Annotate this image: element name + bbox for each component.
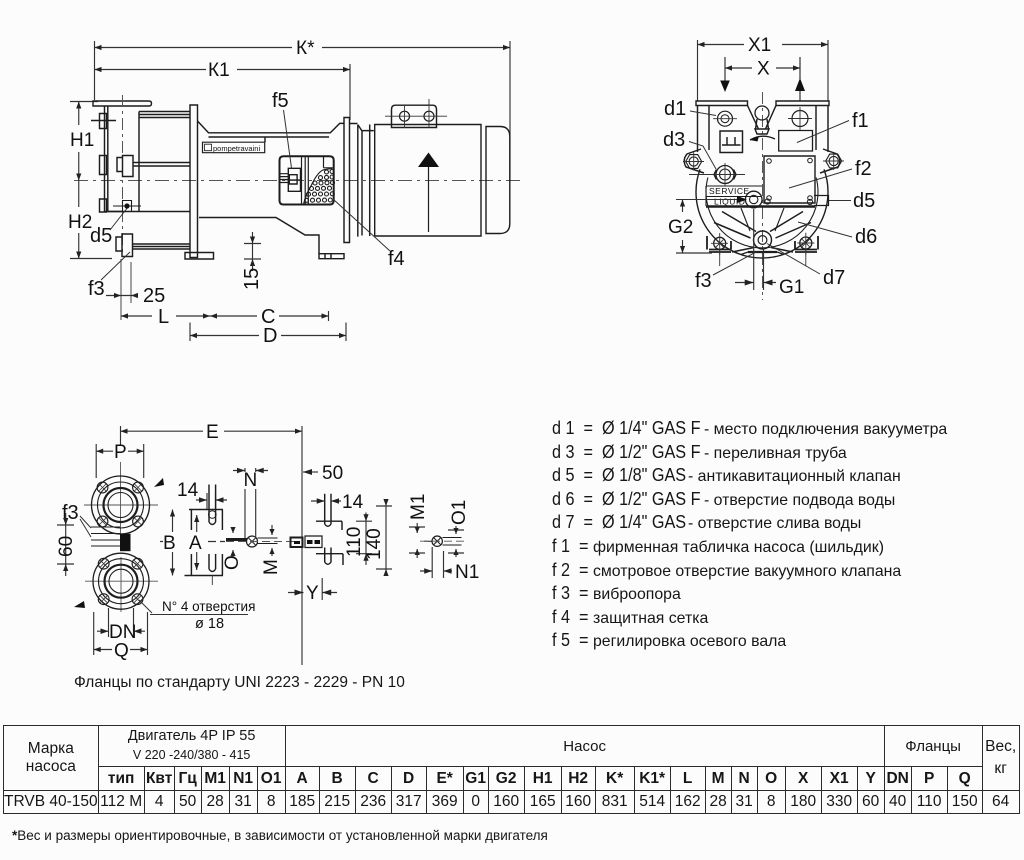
plate bottom edge <box>706 205 815 207</box>
svg-text:f5: f5 <box>272 90 289 112</box>
svg-text:110: 110 <box>344 527 365 557</box>
svg-text:E: E <box>206 422 219 443</box>
motor rib lines <box>480 130 482 230</box>
right port flange <box>776 101 829 106</box>
svg-text:f3: f3 <box>88 278 105 300</box>
motor adapter <box>369 125 371 237</box>
svg-text:Y: Y <box>306 583 319 604</box>
svg-text:N1: N1 <box>455 562 479 583</box>
svg-text:К*: К* <box>296 38 315 59</box>
motor body <box>375 125 481 237</box>
dimension Q <box>94 612 148 655</box>
legend list <box>552 417 1022 653</box>
svg-text:N: N <box>244 470 258 491</box>
left foot <box>707 236 731 252</box>
svg-text:f4: f4 <box>388 248 405 270</box>
motor end cap <box>486 127 510 234</box>
upper port stub <box>189 510 223 531</box>
vertical centerline front view <box>762 92 764 300</box>
keyway lower <box>316 548 343 566</box>
dimension M <box>269 525 274 556</box>
d5 valve <box>113 201 141 212</box>
bracket top profile <box>198 121 345 142</box>
svg-text:d5: d5 <box>853 190 875 212</box>
dimension X <box>725 65 800 70</box>
suction flange <box>92 476 150 534</box>
right port pipe <box>816 106 828 153</box>
dimension C <box>210 311 329 321</box>
protective mesh dots <box>304 168 335 204</box>
svg-text:X: X <box>757 59 770 80</box>
lower port stub <box>185 554 224 576</box>
direction mark top <box>154 478 164 487</box>
svg-text:ø 18: ø 18 <box>195 616 224 632</box>
svg-text:H1: H1 <box>70 130 94 151</box>
dimension M1 <box>409 523 425 558</box>
svg-text:d1: d1 <box>664 98 686 120</box>
centerline pump axis <box>74 180 522 182</box>
dimension H1 <box>70 102 98 181</box>
svg-text:Q: Q <box>114 641 129 662</box>
label f3 bottom <box>80 516 91 537</box>
d7 drain <box>754 231 772 249</box>
dimension 15 <box>244 232 261 271</box>
dimension K1 <box>95 64 351 120</box>
svg-text:14: 14 <box>342 492 364 513</box>
svg-text:M: M <box>261 559 282 575</box>
svg-text:O1: O1 <box>449 500 470 525</box>
web spokes <box>714 212 811 239</box>
bearing block <box>280 156 334 204</box>
svg-text:L: L <box>158 306 169 328</box>
label f2 <box>789 169 852 188</box>
d1 port <box>718 111 733 126</box>
dimension table <box>3 725 1020 814</box>
d3 port <box>716 166 734 184</box>
svg-text:X1: X1 <box>748 35 771 56</box>
dimension 140 <box>376 499 392 576</box>
dimension N <box>233 468 268 538</box>
dimension O <box>230 527 235 557</box>
inlet flange plate <box>93 101 152 106</box>
right lug <box>820 149 840 173</box>
svg-text:pompetravaini: pompetravaini <box>213 144 260 153</box>
vibration mount block <box>120 534 131 552</box>
svg-text:14: 14 <box>177 480 199 501</box>
dimension K* <box>95 41 511 180</box>
dimension 14 upper <box>196 493 227 510</box>
svg-text:M1: M1 <box>408 494 429 520</box>
vibration mount pads <box>91 527 120 546</box>
inspection plate f2 <box>764 156 815 203</box>
holes note leader <box>139 600 248 615</box>
svg-text:G2: G2 <box>668 217 693 238</box>
motor flow arrow <box>418 153 439 168</box>
flange stud bottom <box>100 199 107 212</box>
label f1 <box>797 121 849 143</box>
svg-text:f1: f1 <box>852 110 869 132</box>
dimension H2 <box>70 181 112 259</box>
svg-text:A: A <box>189 533 202 554</box>
dimension 60 <box>57 513 74 576</box>
dimension DN <box>97 608 145 637</box>
svg-text:N° 4 отверстия: N° 4 отверстия <box>162 599 255 614</box>
right gauge port <box>792 111 808 127</box>
dimension O1 <box>448 526 464 557</box>
svg-text:50: 50 <box>322 463 343 484</box>
dimension X1 <box>698 40 829 101</box>
outlet arrow up <box>799 57 801 101</box>
dimension D <box>190 323 346 342</box>
bracket bottom profile <box>199 218 319 254</box>
leader d5 <box>110 207 128 230</box>
svg-text:d3: d3 <box>663 129 685 151</box>
lifting eye <box>755 106 769 120</box>
service liquid box <box>706 186 762 206</box>
label d1 <box>690 111 716 116</box>
flange standard note <box>74 674 405 692</box>
discharge flange <box>93 553 149 609</box>
discharge flange bolt holes <box>98 558 109 569</box>
left lug <box>684 149 704 173</box>
bracket foot right <box>319 254 344 259</box>
svg-text:H2: H2 <box>68 212 92 233</box>
casing body <box>108 112 190 212</box>
dimension E <box>121 426 303 665</box>
leader f4 <box>333 199 390 251</box>
dimension G1 <box>735 209 776 290</box>
svg-text:f2: f2 <box>855 158 872 180</box>
label f3 front <box>713 252 757 276</box>
nameplate pompetravaini <box>203 142 265 153</box>
svg-text:d5: d5 <box>90 225 112 247</box>
svg-text:25: 25 <box>143 285 165 307</box>
leader f3 side <box>101 252 130 280</box>
inlet arrow down <box>724 57 726 81</box>
svg-text:D: D <box>263 325 277 347</box>
svg-text:SERVICE: SERVICE <box>709 186 750 196</box>
flange stud top <box>91 114 116 129</box>
right foot <box>795 236 818 252</box>
svg-text:К1: К1 <box>208 60 230 81</box>
svg-text:140: 140 <box>364 528 385 560</box>
d5 valve boss <box>814 196 829 206</box>
dimension 50 <box>303 469 318 475</box>
label d3 <box>689 142 716 170</box>
svg-text:O: O <box>222 555 243 570</box>
motor shaft blocks <box>291 538 303 548</box>
dimension P <box>96 444 144 478</box>
backplate foot pad <box>185 253 214 260</box>
tie bolt upper <box>117 156 190 177</box>
flange centerlines <box>84 462 158 612</box>
pump shaft end <box>226 538 247 541</box>
dims B and A <box>160 510 225 576</box>
inlet flange body <box>105 106 123 212</box>
suction flange bolt holes <box>97 482 108 493</box>
axial adjust screw f5 <box>288 168 300 191</box>
dimension 25 <box>106 293 138 298</box>
rotation arrow <box>750 136 775 140</box>
casing rim <box>696 169 828 258</box>
funnel <box>748 106 777 135</box>
dimension G2 <box>676 200 712 254</box>
svg-text:d7: d7 <box>823 267 845 289</box>
motor flange <box>344 118 374 243</box>
dimension N1 <box>420 547 452 578</box>
label d7 <box>767 244 820 275</box>
dimension 14 keyway <box>311 498 341 504</box>
svg-text:60: 60 <box>56 536 77 557</box>
casing backplate <box>190 105 198 258</box>
direction mark bottom <box>74 601 85 608</box>
svg-text:f3: f3 <box>695 270 712 292</box>
tie bolt lower <box>116 234 190 257</box>
label d5 front <box>829 200 851 202</box>
dimension 110 <box>356 513 372 566</box>
label d6 <box>798 222 852 237</box>
footnote <box>12 828 548 843</box>
svg-text:G1: G1 <box>779 277 804 298</box>
dimension L <box>121 313 210 318</box>
flange stud middle <box>100 156 107 175</box>
svg-text:B: B <box>163 533 176 554</box>
svg-text:d6: d6 <box>855 226 877 248</box>
foot bolt left <box>121 259 131 320</box>
left port flange <box>696 101 748 106</box>
dimension Y <box>288 578 337 600</box>
d3 bracket <box>720 131 743 153</box>
svg-text:15: 15 <box>241 268 263 290</box>
motor shaft end screw <box>432 536 442 546</box>
service port d6 <box>676 199 737 201</box>
bottom pad <box>748 251 777 253</box>
keyway upper <box>316 494 342 530</box>
svg-text:P: P <box>114 442 127 463</box>
left port pipe <box>698 106 710 153</box>
motor lifting lug <box>392 105 437 127</box>
nameplate f1 <box>779 131 813 152</box>
flange centerline <box>122 95 124 252</box>
leader f5 <box>284 110 292 168</box>
